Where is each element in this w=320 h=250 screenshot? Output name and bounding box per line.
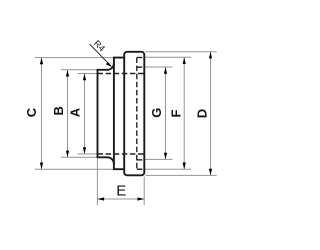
extension line F top (144, 56, 191, 58)
dimension line E (97, 198, 144, 200)
arrowhead R4 (106, 62, 112, 67)
svg-text:E: E (116, 183, 126, 200)
arrowhead F top (183, 57, 186, 64)
extension line G top (144, 66, 172, 68)
extension line D bottom (146, 174, 217, 176)
arrowhead A top (83, 74, 86, 81)
dimension line C (41, 58, 43, 170)
arrowhead G top (164, 67, 167, 74)
recess top G edge (137, 66, 145, 68)
svg-text:B: B (51, 106, 66, 115)
arrowhead E left (97, 197, 104, 200)
arrowhead B bottom (66, 151, 69, 158)
dimension line F (183, 57, 185, 169)
arrowhead A bottom (83, 147, 86, 154)
svg-text:F: F (169, 109, 184, 117)
arrowhead F bottom (183, 163, 186, 170)
dimension line A (84, 74, 86, 155)
collar top edge (114, 57, 124, 59)
arrowhead G bottom (164, 153, 167, 160)
extension line F bottom (144, 168, 191, 170)
svg-text:C: C (24, 107, 39, 117)
arrowhead E right (138, 197, 145, 200)
arrowhead D top (209, 52, 212, 59)
leader line R4 (90, 44, 111, 66)
arrowhead C top (40, 52, 212, 201)
bore hidden line top (98, 58, 145, 170)
recess bottom F edge (137, 168, 145, 170)
extension line E left (96, 159, 98, 206)
recess depth hidden line (136, 58, 138, 170)
fillet R4 bottom (107, 157, 114, 164)
label C (24, 38, 209, 199)
dimension line B (67, 70, 69, 158)
extension line B top (61, 69, 98, 71)
extension line A bottom (78, 153, 98, 155)
bore hidden line bottom (98, 153, 145, 155)
arrowhead D bottom (209, 169, 212, 176)
extension line G bottom (144, 158, 172, 160)
pipe bottom edge (98, 156, 108, 158)
dimension line G (165, 67, 167, 159)
extension line A top (78, 73, 98, 75)
flange outline (124, 52, 144, 176)
step face (113, 58, 115, 170)
collar bottom edge (114, 168, 124, 170)
arrowhead C bottom (40, 163, 43, 170)
svg-text:D: D (194, 109, 209, 118)
extension line D top (146, 51, 217, 53)
extension line C top (35, 52, 217, 205)
recess bottom G edge (137, 159, 145, 161)
dimension line D (210, 52, 212, 176)
svg-text:G: G (149, 108, 164, 118)
arrowhead B top (66, 70, 69, 77)
svg-text:A: A (68, 107, 83, 117)
fillet R4 top (107, 63, 114, 70)
extension line E right (143, 177, 145, 206)
pipe top edge (98, 69, 108, 71)
extension line C bottom (35, 168, 114, 170)
pipe left face (98, 52, 145, 176)
recess top F edge (137, 57, 145, 59)
extension line B bottom (61, 156, 98, 158)
